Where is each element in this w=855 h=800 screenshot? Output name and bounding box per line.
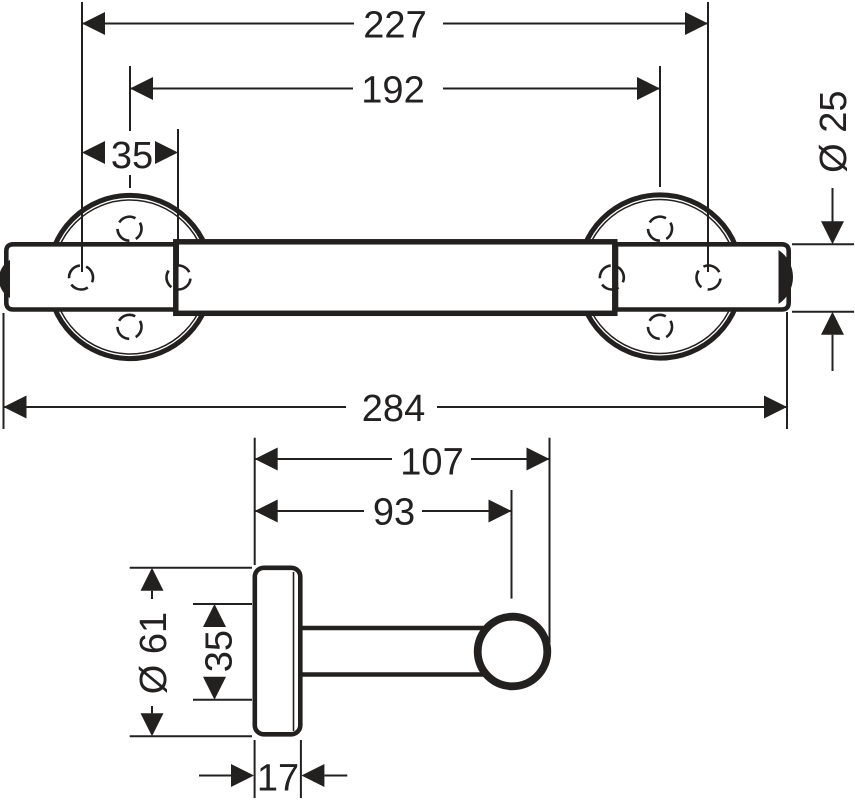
left flange screw hole top — [113, 212, 146, 245]
bar right end section — [616, 244, 789, 309]
dimension 284 right arrow — [764, 396, 787, 419]
left flange screw hole left — [65, 262, 97, 294]
bar central grip section — [176, 242, 615, 313]
svg-text:35: 35 — [198, 630, 240, 672]
dimension diameter-25 upper line — [832, 188, 834, 222]
dimension diameter-25 up arrow — [821, 312, 844, 335]
dimension 93 line — [255, 510, 364, 512]
extension line 192 left lower dash — [129, 175, 131, 188]
dimension side-35 down arrow — [203, 677, 226, 700]
extension line 17 left — [254, 740, 256, 798]
dimension 107 left arrow — [255, 448, 278, 471]
dimension diameter-61 lower stub — [151, 706, 153, 713]
dimension 35 right arrow — [155, 141, 178, 164]
svg-text:Ø 25: Ø 25 — [813, 91, 855, 173]
side view arm bottom line — [303, 672, 485, 677]
bar left end cap — [0, 260, 10, 298]
dimension 227 line — [82, 23, 354, 25]
dimension 192 left arrow — [130, 77, 153, 100]
extension line 107/93 left wall — [254, 438, 256, 565]
svg-text:107: 107 — [400, 442, 463, 484]
side view flange face line — [293, 572, 295, 731]
left flange screw hole bottom — [113, 310, 146, 343]
extension line diameter-61 bottom — [130, 735, 252, 737]
extension line 284 right — [786, 312, 788, 429]
extension line 35 right — [177, 129, 179, 266]
left flange inner circle — [53, 200, 207, 354]
left flange screw hole right — [163, 262, 195, 294]
dimension diameter-61 down arrow — [141, 713, 164, 736]
dimension 192 right arrow — [637, 77, 660, 100]
svg-text:192: 192 — [361, 69, 424, 111]
dimension 284 line — [4, 406, 347, 408]
extension line 284 left — [3, 313, 5, 429]
svg-text:284: 284 — [362, 388, 425, 430]
extension line 107 right — [549, 438, 551, 643]
dimension diameter-25 lower line — [832, 335, 834, 371]
svg-text:35: 35 — [111, 135, 153, 177]
dimension side-35 up arrow — [203, 604, 226, 627]
dimension 17 left arrow — [231, 764, 254, 787]
extension line diameter-25 top — [792, 243, 854, 245]
dimension 17 left line — [199, 775, 232, 777]
right flange screw hole right — [693, 262, 725, 294]
extension line side-35 bottom — [193, 699, 252, 701]
dimension diameter-61 upper stub — [151, 591, 153, 599]
svg-text:Ø 61: Ø 61 — [133, 612, 175, 694]
side view arm top line — [303, 626, 485, 631]
extension line 227 right — [707, 2, 709, 272]
extension line diameter-61 top — [130, 567, 252, 569]
dimension 192 line — [130, 88, 353, 90]
dimension 17 right line — [324, 775, 347, 777]
extension line diameter-25 bottom — [792, 311, 854, 313]
right flange screw hole bottom — [644, 310, 677, 343]
dimension 35 left arrow — [82, 141, 105, 164]
dimension 107 line — [255, 458, 392, 460]
dimension diameter-25 down arrow — [821, 221, 844, 244]
right flange screw hole left — [596, 262, 628, 294]
dimension 227 right arrow — [685, 12, 708, 35]
bar left end section — [6, 244, 176, 309]
bar right end cap — [779, 250, 793, 304]
svg-text:17: 17 — [257, 758, 299, 800]
extension line 93 right — [511, 490, 513, 599]
extension line side-35 top — [193, 603, 252, 605]
svg-text:93: 93 — [373, 492, 415, 534]
extension line 192 left upper — [129, 66, 131, 131]
extension line 227 left — [81, 2, 83, 272]
dimension 17 right arrow — [301, 764, 324, 787]
dimension 284 left arrow — [4, 396, 27, 419]
side view bar cross-section ring — [478, 617, 548, 687]
left flange outer circle — [48, 195, 211, 358]
dimension 93 left arrow — [255, 500, 278, 523]
right flange outer circle — [578, 195, 741, 358]
side view flange plate — [255, 568, 300, 735]
extension line 17 right — [300, 740, 302, 798]
dimension 107 right arrow — [527, 448, 550, 471]
dimension diameter-61 up arrow — [141, 568, 164, 591]
dimension 93 right arrow — [489, 500, 512, 523]
right flange inner circle — [583, 200, 737, 354]
svg-text:227: 227 — [363, 4, 426, 46]
extension line 192 right — [659, 66, 661, 187]
right flange screw hole top — [644, 212, 677, 245]
dimension 227 left arrow — [82, 12, 105, 35]
